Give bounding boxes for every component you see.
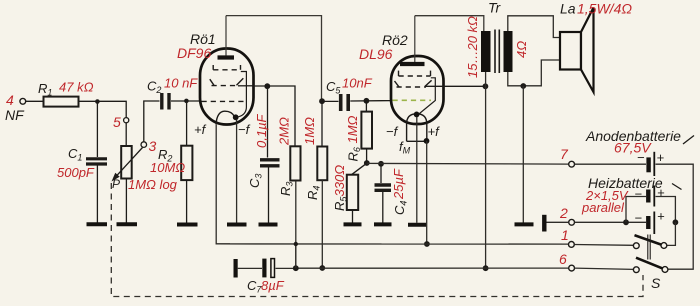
node speaker return junction [520, 83, 526, 89]
chassis bar vertical at terminal 2 [542, 215, 546, 232]
svg-text:2: 2 [559, 205, 568, 221]
chassis bar under potentiometer [117, 222, 138, 226]
wire terminal 5 to potentiometer top [125, 123, 127, 146]
svg-text:8µF: 8µF [261, 278, 285, 293]
chassis bar under R2 [177, 223, 198, 227]
svg-text:−f: −f [386, 124, 399, 139]
wire C4 node down to C4 [380, 164, 382, 183]
node A junction dot [95, 99, 100, 104]
svg-text:La: La [560, 1, 576, 17]
svg-text:4: 4 [6, 92, 14, 108]
transformer Tr labels [465, 0, 529, 78]
svg-text:−f: −f [238, 122, 251, 137]
wire grid node down to R2 [186, 101, 188, 146]
node g2 to primary junction [483, 83, 489, 89]
svg-text:0,1µF: 0,1µF [254, 113, 269, 148]
capacitor C2 [147, 76, 198, 110]
switch S pole 2 blade [636, 258, 663, 269]
wire potentiometer bottom to chassis [125, 179, 127, 223]
capacitor C7 with chassis bar [236, 259, 296, 295]
tube U1 filament cathode dot [233, 114, 239, 120]
chassis bar under speaker return [515, 222, 534, 226]
node screen g2 junction [264, 83, 270, 89]
tube U1 anode lead [225, 16, 227, 56]
wire fM lead down to chassis [416, 117, 418, 223]
chassis bar under fM [408, 223, 426, 227]
wire node A right and down to terminal 5 [97, 101, 126, 117]
tube U2 g3 to filament wire [419, 78, 435, 114]
resistor R5 [332, 165, 358, 211]
capacitor C1 [57, 146, 107, 180]
svg-text:1,5W/4Ω: 1,5W/4Ω [577, 1, 632, 17]
battery Heizbatterie cell 2 [635, 209, 666, 235]
svg-text:47 kΩ: 47 kΩ [59, 80, 94, 95]
svg-text:25µF: 25µF [391, 168, 406, 200]
wire filament plus down to heater bus [426, 141, 428, 244]
wire anode rail tube U2 to transformer primary [415, 16, 484, 32]
loudspeaker La labels [560, 1, 632, 17]
svg-text:15…20 kΩ: 15…20 kΩ [465, 16, 480, 78]
tube U2 anode lead [414, 16, 416, 62]
svg-text:DF96: DF96 [177, 45, 211, 61]
resistor R6 [345, 112, 372, 162]
wire R1 to node A [79, 100, 98, 102]
terminal 6 [559, 251, 574, 271]
wire R5 bottom to chassis [352, 210, 354, 223]
resistor R3 [277, 117, 301, 196]
terminal 4 NF input [5, 92, 26, 123]
tube U1 grid g2 [210, 78, 244, 85]
potentiometer P 1MOhm log [112, 146, 178, 192]
chassis bar under C3 [259, 223, 278, 227]
svg-text:5: 5 [113, 114, 121, 130]
switch S pole 2 contacts [633, 267, 668, 273]
transformer Tr core [495, 30, 499, 74]
wire R3 bottom down to minus line [295, 181, 297, 269]
wire secondary top to speaker [508, 16, 560, 38]
svg-text:+: + [657, 150, 665, 165]
chassis bar under tube U1 -f [227, 223, 247, 227]
wire g2 node down to C3 [267, 86, 269, 157]
svg-text:S: S [651, 275, 661, 291]
node primary bottom on minus line [483, 265, 489, 271]
tube U2 grid g1 green [393, 99, 432, 101]
wire speaker return down to chassis [522, 86, 524, 223]
svg-text:7: 7 [560, 146, 569, 162]
node heater battery minus junction [623, 219, 629, 225]
svg-text:+: + [657, 209, 665, 224]
wire terminal 2 right to heater battery [575, 221, 647, 223]
wire terminal 7 to anode battery [575, 163, 647, 165]
wire secondary bottom to speaker return [508, 60, 560, 86]
battery Anodenbatterie 67,5V [585, 128, 694, 176]
tube U1 grid g1 [202, 100, 247, 102]
transformer Tr secondary winding [504, 31, 513, 72]
wire terminal4 to R1 [26, 100, 43, 102]
tube U2 filament arch [407, 114, 427, 142]
wire C1 to chassis [96, 166, 98, 223]
tube U2 grid g3 [399, 71, 431, 76]
svg-text:P: P [112, 177, 120, 191]
svg-text:6: 6 [559, 251, 567, 267]
svg-text:3: 3 [149, 138, 157, 154]
loudspeaker La driver box [560, 32, 581, 70]
tube U2 g2 wire out to transformer primary [426, 85, 485, 87]
tube U1 anode [218, 55, 235, 59]
tube U1 Roe1 DF96 envelope [177, 31, 254, 125]
tube U2 filament bottom bar [407, 140, 427, 142]
svg-text:+f: +f [194, 122, 207, 137]
node filament plus junction [424, 138, 430, 144]
wire R6 bottom to plus bus node [366, 149, 368, 163]
wire terminal 6 to switch contact [575, 268, 634, 269]
svg-text:330Ω: 330Ω [332, 165, 347, 197]
node heater bus junction [424, 241, 430, 247]
svg-text:parallel: parallel [581, 200, 625, 215]
terminal 7 [560, 146, 574, 167]
tube U1 g3 to filament wire [239, 72, 247, 117]
wire R2 to chassis [186, 180, 188, 222]
node grid1 junction dot [184, 99, 189, 104]
svg-text:500pF: 500pF [57, 165, 95, 180]
capacitor C3 [247, 113, 280, 188]
resistor R1 [38, 80, 94, 107]
wire tube U1 -f lead down [236, 120, 238, 223]
node R6 bottom junction [364, 160, 370, 166]
wire node A down to C1 [96, 102, 98, 158]
chassis bar under C4 [374, 222, 392, 226]
tube U2 filament center dot [414, 112, 420, 118]
svg-text:NF: NF [5, 107, 25, 123]
wire anode rail tube U1 to R4 node [226, 16, 322, 99]
terminal 5 [113, 114, 129, 130]
capacitor C5 [326, 76, 373, 112]
svg-text:DL96: DL96 [359, 46, 393, 62]
svg-text:+f: +f [428, 124, 441, 139]
loudspeaker La cone [581, 8, 594, 93]
battery Heizbatterie labels [581, 175, 682, 215]
chassis bar under R5 [344, 222, 362, 226]
tube U2 anode [400, 62, 425, 66]
wire R4 node down to R4 [321, 101, 323, 146]
wire terminal 2 left to chassis bar [547, 221, 569, 223]
resistor R4 [302, 117, 327, 200]
svg-text:1: 1 [561, 227, 569, 243]
transformer Tr primary winding [481, 31, 491, 72]
switch S pole 1 blade [635, 235, 662, 244]
node heater bus R3 junction [294, 242, 298, 246]
terminal 1 [561, 227, 574, 247]
wire R4 node to C5 [322, 100, 339, 102]
node heater battery plus junction [673, 219, 679, 225]
terminal 2 [559, 205, 574, 225]
svg-text:10nF: 10nF [342, 76, 373, 91]
wire tube U1 +f lead down to heater bus [216, 125, 230, 244]
node grid2 junction [364, 98, 370, 104]
wire grid2 node down to R6 [365, 101, 367, 112]
wire diagonal R6 node to R5 top [352, 163, 367, 175]
tube U2 Roe2 DL96 envelope [359, 32, 444, 124]
wire C3 to chassis [268, 168, 270, 223]
switch S pole 1 contacts [633, 243, 666, 249]
svg-text:2MΩ: 2MΩ [277, 117, 292, 146]
wire C5 to grid2 node [350, 100, 391, 102]
node C7 junction on minus line [293, 265, 299, 271]
wire g2 node to R3 top [254, 86, 296, 146]
node R4 bottom junction [319, 265, 325, 271]
wire anode battery plus down right edge to switch [656, 164, 694, 269]
svg-text:67,5V: 67,5V [614, 140, 652, 156]
dashed mechanical link potentiometer to switch [111, 183, 643, 297]
node R4 top junction [319, 98, 325, 104]
wire terminal 3 up to C2 [144, 101, 160, 142]
terminal 3 [141, 138, 157, 154]
svg-text:1MΩ: 1MΩ [345, 115, 360, 143]
wire heater plus down to switch contact [667, 222, 675, 245]
heater bus wire terminal 1 [216, 243, 568, 245]
svg-text:10 nF: 10 nF [164, 76, 198, 91]
node C4 top junction [378, 161, 384, 167]
tube U1 g2 wire out to R3 [238, 85, 254, 87]
resistor R2 [150, 146, 192, 180]
tube U1 grid g3 [213, 65, 240, 70]
chassis bar under C1 [87, 222, 108, 226]
wire terminal 1 to switch contact [574, 244, 633, 247]
wire primary bottom down to minus line [485, 72, 487, 268]
capacitor C4 [375, 168, 409, 215]
tube U1 filament [216, 111, 235, 124]
minus line from C7 node to terminal 6 [296, 267, 569, 269]
tube U2 grid g2 [395, 80, 432, 87]
wire plus bus from R6 node to terminal 7 [367, 162, 569, 165]
svg-text:−: − [635, 211, 643, 226]
wire heater cells parallel minus [626, 197, 646, 223]
wire C7 node up to heater bus [295, 244, 297, 268]
wire C2 to grid node [171, 100, 201, 102]
battery Heizbatterie cell 1 [635, 185, 666, 207]
svg-text:4Ω: 4Ω [514, 41, 529, 58]
wire heater cells parallel plus [656, 197, 676, 223]
svg-text:1MΩ log: 1MΩ log [128, 177, 178, 192]
svg-text:1MΩ: 1MΩ [302, 117, 317, 145]
svg-text:Tr: Tr [488, 0, 502, 16]
wire R4 bottom down to minus line [321, 180, 323, 268]
switch S mechanical link bars [648, 235, 650, 260]
svg-text:10MΩ: 10MΩ [150, 160, 185, 175]
wire C4 bottom to chassis [382, 192, 384, 223]
